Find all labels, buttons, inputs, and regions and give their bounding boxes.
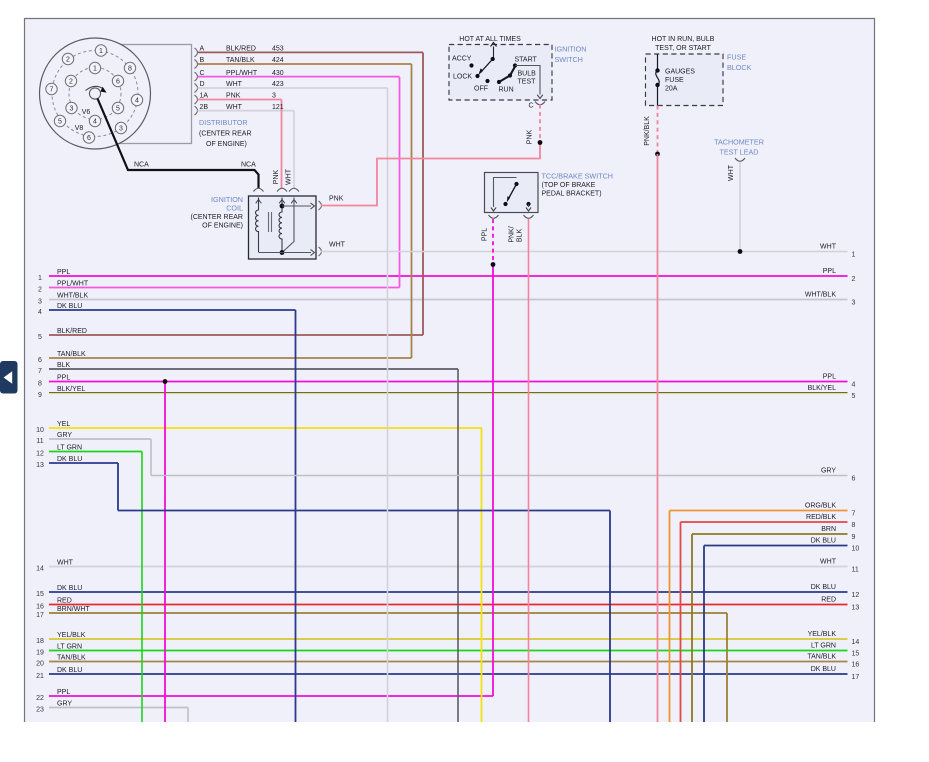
svg-text:16: 16 <box>852 662 860 669</box>
svg-text:PNK: PNK <box>329 196 344 203</box>
svg-text:PPL/WHT: PPL/WHT <box>226 70 258 77</box>
svg-text:WHT: WHT <box>286 168 293 185</box>
svg-text:WHT: WHT <box>728 164 735 181</box>
wire PNK coil to ignition switch <box>321 143 540 206</box>
distributor terminal 6 <box>112 75 123 86</box>
svg-text:3: 3 <box>70 106 74 113</box>
wire WHT coil output right row1 <box>321 251 848 253</box>
svg-text:D: D <box>200 81 205 88</box>
wire PPL TCC dashed <box>492 219 494 265</box>
svg-text:V8: V8 <box>75 125 84 132</box>
wire YEL row10 drop x=481.5 <box>481 428 483 722</box>
svg-text:20: 20 <box>36 661 44 668</box>
distributor pin D wire WHT 423 <box>195 84 198 93</box>
wire ORG/BLK right row7 <box>670 510 848 512</box>
wire left row 12 LT GRN <box>49 451 142 453</box>
ignition coil core <box>268 212 270 232</box>
svg-text:13: 13 <box>36 462 44 469</box>
wire PNK/BLK fuse to bottom <box>657 154 659 722</box>
distributor housing box <box>100 45 192 144</box>
svg-text:PNK: PNK <box>273 169 280 184</box>
svg-text:HOT AT ALL TIMES: HOT AT ALL TIMES <box>459 36 521 43</box>
wire left row 14 WHT <box>49 566 848 568</box>
wire BLK row7 drop x=458 <box>457 369 459 722</box>
svg-text:20A: 20A <box>665 86 678 93</box>
svg-text:LOCK: LOCK <box>453 74 472 81</box>
svg-text:TAN/BLK: TAN/BLK <box>57 654 86 661</box>
svg-text:8: 8 <box>128 66 132 73</box>
svg-text:PPL: PPL <box>823 268 836 275</box>
wire GRY row23 drop x=188 <box>187 708 189 723</box>
svg-text:OF ENGINE): OF ENGINE) <box>202 223 243 230</box>
wire left row 13 DK BLU <box>49 462 118 464</box>
ignition coil tach pickup lead <box>291 200 297 204</box>
wire PPL row22 riser x=493 to TCC switch <box>492 265 494 697</box>
wire TAN/BLK vertical riser x=411.5 <box>411 64 413 358</box>
svg-text:3: 3 <box>852 300 856 307</box>
svg-text:5: 5 <box>852 393 856 400</box>
distributor pin 1A wire PNK 3 <box>195 95 198 104</box>
svg-text:10: 10 <box>852 546 860 553</box>
svg-text:HOT IN RUN, BULB: HOT IN RUN, BULB <box>652 36 715 43</box>
svg-text:16: 16 <box>36 604 44 611</box>
svg-text:(CENTER REAR: (CENTER REAR <box>199 131 252 138</box>
svg-text:DK BLU: DK BLU <box>811 538 836 545</box>
wire GRY row11 jog <box>150 439 152 476</box>
svg-text:1: 1 <box>852 252 856 259</box>
ignition coil secondary winding <box>279 200 285 204</box>
svg-text:DK BLU: DK BLU <box>57 667 82 674</box>
ignition coil connector caps <box>254 188 264 191</box>
wire DK BLU row4 drop x=295.5 <box>295 310 297 722</box>
distributor terminal 6 <box>83 132 94 143</box>
svg-text:1A: 1A <box>200 93 209 100</box>
svg-text:WHT/BLK: WHT/BLK <box>57 292 88 299</box>
distributor inner dashed ring <box>69 68 121 120</box>
svg-text:WHT: WHT <box>226 104 243 111</box>
svg-text:DK BLU: DK BLU <box>57 456 82 463</box>
wire left row 23 GRY <box>49 707 188 709</box>
distributor outer dashed ring <box>52 51 138 137</box>
svg-text:NCA: NCA <box>241 162 256 169</box>
wire left row 19 LT GRN <box>49 650 848 652</box>
svg-text:4: 4 <box>852 382 856 389</box>
svg-text:COIL: COIL <box>226 204 243 213</box>
svg-text:TEST LEAD: TEST LEAD <box>719 148 758 157</box>
svg-text:22: 22 <box>36 695 44 702</box>
svg-text:TEST: TEST <box>518 79 537 86</box>
svg-text:TCC/BRAKE SWITCH: TCC/BRAKE SWITCH <box>542 172 613 181</box>
svg-text:TAN/BLK: TAN/BLK <box>226 57 255 64</box>
svg-text:4: 4 <box>93 119 97 126</box>
svg-text:TAN/BLK: TAN/BLK <box>57 351 86 358</box>
junction dot PPL row8 <box>163 379 168 384</box>
svg-text:DK BLU: DK BLU <box>811 666 836 673</box>
svg-text:PNK: PNK <box>527 129 534 144</box>
svg-text:1: 1 <box>38 275 42 282</box>
splice dot PNK/BLK <box>655 152 660 157</box>
ignition coil primary winding <box>256 200 262 204</box>
svg-text:NCA: NCA <box>134 162 149 169</box>
wire left row 9 BLK/YEL <box>49 392 848 394</box>
svg-text:BULB: BULB <box>518 71 537 78</box>
wire RED/BLK right row8 <box>681 521 848 523</box>
left nav tab <box>0 361 18 394</box>
fuse block box <box>646 54 724 106</box>
svg-text:PPL: PPL <box>57 689 70 696</box>
splice dot PPL <box>491 262 496 267</box>
wire left row 22 PPL <box>49 695 493 697</box>
wire LT GRN row12 drop x=142.5 <box>141 452 143 723</box>
distributor terminal 3 <box>115 122 126 133</box>
svg-text:2: 2 <box>66 57 70 64</box>
wire PNK/BLK TCC to bottom <box>528 219 530 722</box>
svg-text:WHT: WHT <box>820 559 837 566</box>
svg-text:WHT: WHT <box>57 559 74 566</box>
svg-text:PPL: PPL <box>482 228 489 241</box>
svg-text:4: 4 <box>135 98 139 105</box>
svg-text:IGNITION: IGNITION <box>555 45 587 54</box>
svg-text:PPL: PPL <box>57 269 70 276</box>
tachometer connector <box>735 158 745 161</box>
svg-text:424: 424 <box>272 57 284 64</box>
svg-text:6: 6 <box>852 476 856 483</box>
wire left row 18 YEL/BLK <box>49 638 848 640</box>
svg-text:C: C <box>528 103 533 110</box>
wire PNK ignition switch dashed <box>539 105 541 143</box>
wire WHT 423 drop x=387.5 <box>387 88 389 722</box>
svg-text:RUN: RUN <box>499 87 514 94</box>
svg-text:11: 11 <box>36 438 43 445</box>
svg-text:ACCY: ACCY <box>452 56 472 63</box>
svg-text:9: 9 <box>38 392 42 399</box>
svg-text:2B: 2B <box>200 104 209 111</box>
wire left row 15 DK BLU <box>49 591 848 593</box>
svg-text:BRN/WHT: BRN/WHT <box>57 606 90 613</box>
svg-text:ORG/BLK: ORG/BLK <box>805 503 836 510</box>
svg-text:14: 14 <box>36 566 44 573</box>
wire BRN/WHT row17 drop x=727 <box>726 613 728 722</box>
svg-text:21: 21 <box>36 673 44 680</box>
svg-text:121: 121 <box>272 104 284 111</box>
svg-text:17: 17 <box>36 612 44 619</box>
svg-text:2: 2 <box>852 276 856 283</box>
svg-text:A: A <box>200 46 205 53</box>
svg-text:LT GRN: LT GRN <box>811 643 836 650</box>
svg-text:WHT: WHT <box>226 81 243 88</box>
svg-text:C: C <box>200 70 205 77</box>
svg-text:2: 2 <box>69 79 73 86</box>
wire left row 8 PPL <box>49 381 848 383</box>
svg-text:9: 9 <box>852 534 856 541</box>
distributor terminal 1 <box>95 45 106 56</box>
svg-text:6: 6 <box>87 135 91 142</box>
fuse GAUGES FUSE 20A <box>657 54 659 71</box>
svg-text:YEL/BLK: YEL/BLK <box>808 631 837 638</box>
distributor terminal 7 <box>46 83 57 94</box>
svg-text:PNK: PNK <box>226 93 241 100</box>
svg-text:5: 5 <box>58 119 62 126</box>
TCC connector cups <box>489 215 499 218</box>
svg-text:PPL: PPL <box>57 374 70 381</box>
wire left row 11 GRY <box>49 438 151 440</box>
ignition switch lever <box>481 59 493 73</box>
svg-text:12: 12 <box>36 451 44 458</box>
wire left row 21 DK BLU <box>49 673 848 675</box>
wire PPL branch drop x=165 <box>164 382 166 723</box>
svg-text:BLK/RED: BLK/RED <box>57 328 87 335</box>
svg-text:6: 6 <box>116 79 120 86</box>
svg-text:430: 430 <box>272 70 284 77</box>
wire left row 10 YEL <box>49 427 482 429</box>
svg-text:BLK: BLK <box>517 229 524 243</box>
svg-text:10: 10 <box>36 427 44 434</box>
svg-text:8: 8 <box>38 381 42 388</box>
svg-text:FUSE: FUSE <box>665 77 684 84</box>
ignition coil internal bottom bus <box>280 250 285 255</box>
wire left row 16 RED <box>49 604 848 606</box>
svg-text:15: 15 <box>852 651 860 658</box>
ignition coil box <box>249 196 317 259</box>
svg-text:GRY: GRY <box>57 432 72 439</box>
junction dot WHT row1 <box>738 249 743 254</box>
svg-text:6: 6 <box>38 357 42 364</box>
wire left row 2 PPL/WHT <box>49 287 400 289</box>
svg-text:2: 2 <box>38 287 42 294</box>
svg-text:(TOP OF BRAKE: (TOP OF BRAKE <box>542 182 596 189</box>
wire left row 3 WHT/BLK <box>49 299 848 301</box>
svg-text:17: 17 <box>852 674 860 681</box>
TCC brake switch box <box>485 173 539 213</box>
svg-text:15: 15 <box>36 591 44 598</box>
distributor terminal 4 <box>131 94 142 105</box>
svg-text:DK BLU: DK BLU <box>811 584 836 591</box>
ignition switch run-start bridge <box>499 67 515 83</box>
svg-text:SWITCH: SWITCH <box>555 55 583 64</box>
wire WHT tachometer lead <box>739 162 741 252</box>
svg-text:11: 11 <box>852 567 859 574</box>
wire left row 5 BLK/RED <box>49 334 423 336</box>
svg-text:TEST, OR START: TEST, OR START <box>655 45 711 52</box>
wire PNK/BLK fuse dashed <box>657 106 659 155</box>
svg-text:RED: RED <box>57 597 72 604</box>
svg-text:14: 14 <box>852 639 860 646</box>
svg-text:TAN/BLK: TAN/BLK <box>807 654 836 661</box>
splice dot PNK <box>538 140 543 145</box>
svg-text:7: 7 <box>50 87 54 94</box>
distributor terminal 8 <box>124 62 135 73</box>
svg-text:DISTRIBUTOR: DISTRIBUTOR <box>199 118 248 127</box>
distributor terminal 5 <box>54 115 65 126</box>
wire left row 4 DK BLU <box>49 309 296 311</box>
ignition coil output connectors <box>319 201 322 210</box>
distributor pin 2B wire WHT 121 <box>195 106 198 115</box>
svg-text:LT GRN: LT GRN <box>57 444 82 451</box>
svg-text:YEL/BLK: YEL/BLK <box>57 632 86 639</box>
svg-text:YEL: YEL <box>57 421 70 428</box>
svg-text:5: 5 <box>38 334 42 341</box>
distributor pin C wire PPL/WHT 430 <box>195 72 198 81</box>
TCC switch internals <box>494 178 517 208</box>
distributor terminal 2 <box>62 53 73 64</box>
svg-text:WHT: WHT <box>820 244 837 251</box>
ignition switch C connector <box>535 102 545 105</box>
svg-text:3: 3 <box>272 93 276 100</box>
wire DK BLU right row10 <box>704 545 848 547</box>
wire WHT 2B drop to coil <box>293 111 295 189</box>
svg-text:BRN: BRN <box>821 526 836 533</box>
wire left row 1 PPL <box>49 275 848 277</box>
svg-text:GRY: GRY <box>821 468 836 475</box>
wire BLK/RED vertical riser x=423 <box>422 53 424 336</box>
svg-text:12: 12 <box>852 592 860 599</box>
svg-text:BLOCK: BLOCK <box>727 63 752 72</box>
distributor terminal 5 <box>112 102 123 113</box>
svg-text:7: 7 <box>38 368 42 375</box>
svg-text:23: 23 <box>36 707 44 714</box>
svg-text:(CENTER REAR: (CENTER REAR <box>190 214 243 221</box>
svg-text:B: B <box>200 57 205 64</box>
svg-text:4: 4 <box>38 309 42 316</box>
distributor cap circle <box>40 38 151 149</box>
distributor terminal 2 <box>65 75 76 86</box>
svg-text:8: 8 <box>852 522 856 529</box>
ignition switch contacts <box>469 63 473 67</box>
wire left row 20 TAN/BLK <box>49 661 848 663</box>
svg-text:3: 3 <box>38 299 42 306</box>
svg-text:7: 7 <box>852 511 856 518</box>
svg-text:WHT: WHT <box>329 242 346 249</box>
svg-text:GRY: GRY <box>57 700 72 707</box>
svg-text:DK BLU: DK BLU <box>57 585 82 592</box>
svg-text:WHT/BLK: WHT/BLK <box>805 292 836 299</box>
svg-text:V6: V6 <box>82 109 91 116</box>
distributor terminal 4 <box>89 115 100 126</box>
wire NCA rotor lead <box>98 99 259 189</box>
svg-text:START: START <box>515 57 538 64</box>
svg-text:5: 5 <box>116 106 120 113</box>
svg-text:3: 3 <box>119 126 123 133</box>
wire PPL/WHT vertical riser x=399.5 <box>399 77 401 288</box>
svg-text:GAUGES: GAUGES <box>665 69 695 76</box>
wire left row 17 BRN/WHT <box>49 612 727 614</box>
ignition switch output to C <box>515 66 540 95</box>
ignition switch feed arrow <box>493 47 495 59</box>
svg-text:PPL/WHT: PPL/WHT <box>57 280 89 287</box>
distributor terminal 1 <box>89 62 100 73</box>
svg-text:TACHOMETER: TACHOMETER <box>714 138 764 147</box>
svg-text:LT GRN: LT GRN <box>57 643 82 650</box>
distributor pin A wire BLK/RED 453 <box>195 48 198 57</box>
svg-text:PNK/: PNK/ <box>509 226 516 242</box>
ignition switch box <box>449 45 552 101</box>
wire PNK 1A drop to coil <box>281 100 283 189</box>
ignition coil internal top bus <box>280 204 285 209</box>
svg-text:PPL: PPL <box>823 374 836 381</box>
svg-text:OFF: OFF <box>474 86 488 93</box>
wire left row 7 BLK <box>49 368 458 370</box>
svg-text:PEDAL BRACKET): PEDAL BRACKET) <box>542 191 602 198</box>
distributor terminal 3 <box>66 102 77 113</box>
svg-text:423: 423 <box>272 81 284 88</box>
svg-text:1: 1 <box>99 48 103 55</box>
svg-text:18: 18 <box>36 638 44 645</box>
wire DK BLU row13 jog <box>117 463 119 511</box>
svg-text:BLK/YEL: BLK/YEL <box>808 385 837 392</box>
svg-text:OF ENGINE): OF ENGINE) <box>206 141 247 148</box>
wire BRN right row9 <box>692 533 848 535</box>
svg-text:13: 13 <box>852 605 860 612</box>
svg-text:DK BLU: DK BLU <box>57 303 82 310</box>
svg-text:BLK: BLK <box>57 362 71 369</box>
distributor pin B wire TAN/BLK 424 <box>195 60 198 69</box>
svg-text:BLK/YEL: BLK/YEL <box>57 386 86 393</box>
wire left row 6 TAN/BLK <box>49 357 412 359</box>
svg-text:PNK/BLK: PNK/BLK <box>644 116 651 146</box>
svg-text:RED: RED <box>821 597 836 604</box>
svg-text:BLK/RED: BLK/RED <box>226 46 256 53</box>
distributor rotor <box>89 88 100 99</box>
svg-text:453: 453 <box>272 46 284 53</box>
svg-text:1: 1 <box>93 66 97 73</box>
svg-text:RED/BLK: RED/BLK <box>806 514 836 521</box>
svg-text:19: 19 <box>36 650 44 657</box>
svg-text:FUSE: FUSE <box>727 53 746 62</box>
